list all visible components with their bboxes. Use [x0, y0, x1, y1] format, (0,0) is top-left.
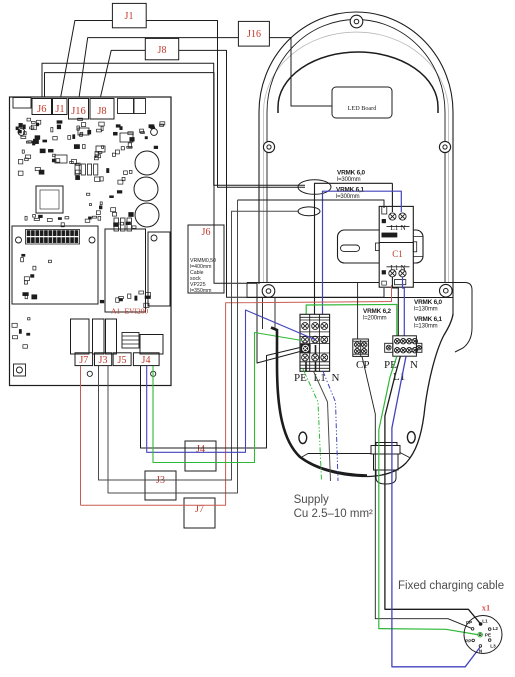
PCB connector J3 [95, 353, 112, 366]
board name A1 EVI200 [111, 307, 148, 316]
svg-text:J16: J16 [247, 29, 261, 40]
svg-text:J3: J3 [99, 355, 108, 366]
wire contactor L1 out black [392, 277, 398, 336]
x1 pin PE center [478, 632, 491, 637]
spare conductor dash blue [323, 371, 338, 481]
PCB top right connectors [118, 99, 146, 114]
svg-text:PE: PE [485, 633, 491, 638]
x1 pin L1 [479, 619, 488, 626]
svg-text:J7: J7 [79, 355, 88, 366]
svg-text:x1: x1 [482, 603, 491, 613]
striped component [122, 333, 139, 349]
wire J3 gray a [99, 211, 300, 480]
PCB connector J1 [53, 99, 68, 116]
svg-text:J4: J4 [142, 355, 151, 366]
svg-text:L2: L2 [493, 626, 499, 631]
PCB top-left corner connector [13, 98, 31, 109]
PCB connector J5 [113, 353, 131, 366]
svg-text:C1: C1 [392, 249, 403, 259]
svg-text:PE: PE [294, 372, 307, 384]
wire contactor N out blue [403, 277, 405, 336]
label box J4 [185, 441, 216, 471]
svg-text:J16: J16 [71, 106, 86, 117]
supply input terminal block PE L1 N [300, 314, 330, 371]
SMD resistor arrays [55, 128, 133, 231]
PCB board A1 EVI200 outline [10, 97, 172, 386]
svg-text:N: N [410, 359, 418, 371]
screw mid left [263, 141, 274, 152]
wire J1 to service loop [61, 21, 305, 188]
x1 pin L2 [488, 626, 498, 631]
mounting plate edges [247, 283, 453, 299]
transformer block [140, 335, 163, 355]
wire L1 black to x1 [385, 356, 480, 623]
wire CP feed from plate [357, 282, 359, 339]
wire J4 black to supply block [141, 348, 301, 449]
wire contactor A1 coil [238, 200, 385, 208]
svg-text:J6: J6 [37, 104, 46, 115]
enclosure outer dome [259, 12, 453, 315]
wire J6 to cable lock [45, 73, 301, 363]
wire J7 red [80, 366, 82, 505]
label VRMK 6,0 l=130mm [414, 299, 443, 313]
wire J16 to LED board [79, 38, 332, 106]
PCB connector J6 [32, 99, 52, 116]
spare conductor dash green [303, 369, 322, 481]
svg-text:l=130mm: l=130mm [414, 307, 438, 313]
svg-text:Supply: Supply [294, 494, 329, 506]
svg-text:l=300mm: l=300mm [336, 194, 360, 200]
svg-text:l=130mm: l=130mm [414, 324, 438, 330]
label CP [356, 359, 369, 371]
cable gland body [374, 454, 399, 484]
svg-text:l=200mm: l=200mm [363, 316, 387, 322]
relay K1 [71, 319, 90, 354]
screw lower right [440, 284, 453, 297]
wire CP down to cable [360, 340, 362, 356]
wire CP to gland [362, 356, 472, 628]
svg-text:J4: J4 [196, 444, 205, 455]
LED board [332, 87, 392, 118]
svg-text:L1: L1 [482, 619, 488, 624]
svg-text:J8: J8 [97, 106, 106, 117]
screw mid right [439, 141, 450, 152]
svg-text:PP: PP [465, 638, 471, 643]
PCB connector J8 [90, 99, 114, 120]
corner box with hole [14, 364, 26, 376]
thick supply cable inside bowl [271, 328, 367, 476]
svg-text:J1: J1 [125, 11, 134, 22]
bowl seam lines [301, 453, 410, 458]
svg-text:VRMK 6,0: VRMK 6,0 [337, 170, 366, 177]
label box J8 [145, 38, 178, 59]
enclosure front-cover arc [278, 52, 438, 113]
wire J6 to service loop [42, 63, 305, 185]
relay K3 [106, 319, 117, 354]
x1 pin N [479, 645, 483, 654]
svg-text:L1 N: L1 N [390, 263, 406, 272]
wire PE green to x1 [379, 356, 478, 634]
svg-text:l=300mm: l=300mm [337, 177, 361, 183]
label box J3 [145, 471, 176, 500]
screw lower left [262, 285, 275, 298]
label box J16 top [238, 21, 269, 46]
wire N supply to contactor blue (VRMK 6,1) [323, 191, 402, 314]
svg-text:J8: J8 [158, 45, 167, 56]
label x1 [482, 603, 491, 613]
svg-text:J1: J1 [55, 104, 64, 115]
service loop ellipse 2 [298, 207, 320, 216]
x1 pin L3 [488, 639, 496, 649]
PCB connector J16 [69, 99, 89, 120]
labels PE L1 N output [384, 359, 418, 383]
svg-text:Fixed charging cable: Fixed charging cable [398, 580, 504, 592]
bottom bowl of enclosure [300, 314, 453, 477]
svg-text:L1 N: L1 N [390, 223, 406, 232]
connector x1 [464, 616, 502, 654]
wire L1 supply to contactor (VRMK 6,0) [315, 183, 393, 314]
relay K2 [93, 319, 105, 354]
daughter board outline [12, 226, 98, 304]
svg-text:CP: CP [466, 620, 472, 625]
label VRMK 6,0 l=300mm [337, 170, 366, 184]
PCB mounting holes [16, 129, 158, 377]
PCB connector J7 [75, 353, 93, 366]
label VRMK 6,1 l=130mm [414, 316, 443, 330]
svg-text:VRMK 6,1: VRMK 6,1 [414, 316, 443, 323]
small SMD components scatter [12, 118, 165, 348]
vertical module board [105, 229, 146, 312]
label box J6 cable lock [188, 225, 224, 294]
service loop ellipse 1 [298, 180, 331, 195]
DIN rail [338, 230, 424, 263]
labels PE L1 N supply [294, 372, 340, 384]
svg-text:l=350mm: l=350mm [190, 288, 211, 294]
oval hole left [299, 432, 307, 443]
svg-text:L3: L3 [490, 643, 496, 648]
label VRMK 6,1 l=300mm [336, 187, 365, 201]
wire J3 gray b to coil A1 [108, 200, 238, 493]
svg-text:VRMK 6,1: VRMK 6,1 [336, 187, 365, 194]
svg-text:A1: A1 [111, 307, 120, 316]
enclosure inner outline [267, 20, 445, 284]
oval hole right [407, 432, 415, 443]
electrolytic capacitors [134, 151, 159, 227]
text fixed charging cable [398, 580, 504, 592]
svg-text:Cu 2.5–10 mm²: Cu 2.5–10 mm² [294, 508, 373, 520]
output terminal block PE L1 N [385, 336, 422, 356]
contactor C1 [376, 206, 417, 287]
svg-text:VRMK 6,0: VRMK 6,0 [414, 299, 443, 306]
svg-text:J6: J6 [202, 227, 211, 238]
wire N blue to x1 [392, 356, 480, 666]
right mounting flange [446, 283, 472, 353]
label box J7 [184, 498, 215, 528]
wire contactor to relay red [81, 285, 392, 505]
screw top center [350, 15, 363, 28]
wire J8 to contactor coil A2 [101, 50, 385, 297]
cable gland nut [371, 443, 400, 455]
x1 pin CP [466, 620, 474, 630]
wire J4 blue to supply block [147, 310, 315, 452]
wire PE green supply to output (VRMK 6,2) [306, 305, 397, 337]
CP terminal block [353, 339, 369, 356]
PCB connector J4 [133, 353, 159, 366]
label VRMK 6,2 l=200mm [363, 308, 392, 322]
wire J4 green to supply block [153, 333, 302, 463]
text supply [294, 494, 373, 520]
svg-text:J5: J5 [118, 355, 127, 366]
pin header 2x12 [26, 230, 80, 245]
main MCU chip [36, 186, 63, 213]
svg-text:EVI200: EVI200 [125, 307, 149, 316]
x1 pin PP [465, 638, 474, 643]
label box J1 [112, 3, 146, 27]
spare conductor dash gray [314, 371, 331, 481]
svg-text:VRMK 6,2: VRMK 6,2 [363, 308, 392, 315]
svg-text:N: N [332, 372, 340, 384]
right edge module [148, 232, 170, 306]
left screw post [263, 298, 276, 330]
svg-text:N: N [479, 649, 483, 654]
svg-text:LED Board: LED Board [348, 105, 378, 112]
